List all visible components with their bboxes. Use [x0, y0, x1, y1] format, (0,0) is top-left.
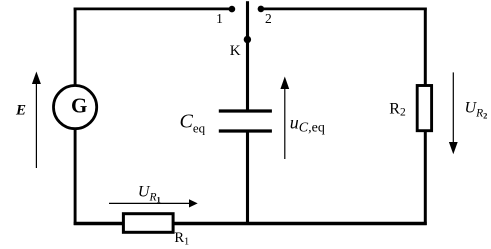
wire top-right (from switch contact 2 to right corner) — [261, 7, 427, 10]
svg-text:E: E — [15, 103, 26, 119]
wire top-left (from left corner to switch contact 1) — [74, 7, 232, 10]
resistor R2 (vertical box) — [417, 86, 431, 131]
arrow U_R2 (downward) — [449, 72, 458, 154]
svg-text:G: G — [71, 94, 87, 118]
svg-text:K: K — [230, 43, 241, 59]
svg-text:2: 2 — [265, 11, 272, 26]
wire left lower (generator G down to bottom corner) — [74, 129, 77, 225]
generator G (circle) — [54, 86, 97, 129]
resistor R1 (horizontal box on bottom wire) — [123, 214, 173, 233]
wire switch lever (vertical, above K pivot) — [246, 1, 249, 39]
wire middle branch (K pivot down to capacitor top plate) — [246, 40, 249, 111]
arrow E (upward) — [32, 72, 41, 169]
arrow u_C,eq (upward) — [280, 77, 289, 160]
switch contact node 1 — [229, 6, 236, 13]
capacitor Ceq bottom plate — [219, 129, 272, 132]
wire left upper (top corner down to generator G) — [74, 8, 77, 87]
switch pivot node K — [244, 36, 251, 43]
svg-text:1: 1 — [216, 11, 223, 26]
wire right upper (top corner down to resistor R2) — [424, 8, 427, 87]
wire right lower (resistor R2 down to bottom corner) — [424, 131, 427, 226]
wire bottom (left corner to right corner, through R1) — [74, 222, 427, 225]
wire middle branch lower (capacitor bottom plate to bottom wire) — [246, 132, 249, 224]
arrow U_R1 (rightward) — [109, 199, 198, 207]
capacitor Ceq top plate — [219, 109, 272, 112]
switch contact node 2 — [258, 6, 265, 13]
